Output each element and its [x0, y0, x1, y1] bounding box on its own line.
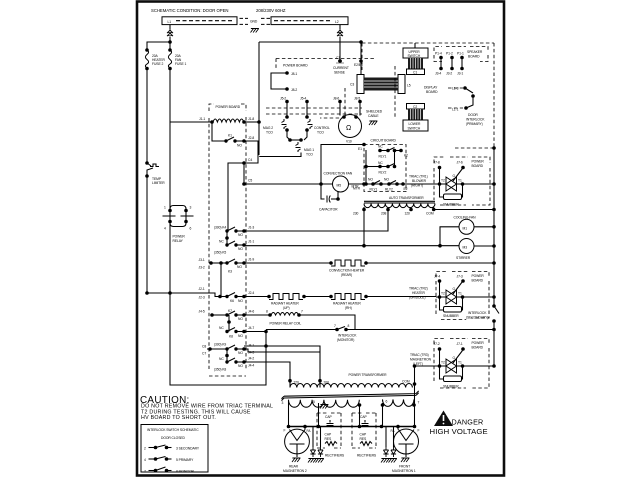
svg-text:C2: C2: [413, 105, 417, 109]
svg-text:(UP): (UP): [283, 306, 290, 310]
snubber for TR1: [440, 184, 463, 207]
node E1 on circuit board: [358, 143, 366, 151]
circuit board left wire: [365, 150, 367, 184]
svg-text:(PRIMARY): (PRIMARY): [466, 122, 483, 126]
svg-text:220: 220: [294, 380, 300, 384]
svg-text:J7-1: J7-1: [457, 342, 463, 346]
svg-text:J7-6: J7-6: [457, 161, 463, 165]
svg-text:K1: K1: [228, 134, 232, 138]
svg-text:230: 230: [353, 212, 359, 216]
wire J1-3 row to 208 tap: [244, 210, 388, 232]
relay contact K5 row J1-1: [214, 240, 254, 255]
svg-text:INTERLOCK: INTERLOCK: [466, 118, 485, 122]
svg-text:MAGNETRON 1: MAGNETRON 1: [392, 469, 416, 473]
wire C4 branch down to K4: [228, 163, 244, 231]
svg-text:RELAY: RELAY: [173, 239, 184, 243]
svg-text:K8: K8: [229, 335, 233, 339]
svg-text:CONVECTION HEATER: CONVECTION HEATER: [329, 269, 365, 273]
svg-text:4: 4: [164, 227, 166, 231]
svg-text:3 SECONDARY: 3 SECONDARY: [176, 447, 200, 451]
TR1 pins J7-8 J7-6: [434, 161, 465, 185]
power board (top) dashed box: [276, 59, 376, 69]
connector pins J5-2 J5-4 J8-6 J8-5: [280, 97, 362, 104]
svg-text:TCO: TCO: [306, 153, 313, 157]
wire J4-1 row to transformer tap 208: [244, 344, 320, 381]
svg-text:M3: M3: [463, 246, 468, 250]
svg-text:K3: K3: [228, 270, 232, 274]
svg-text:CONVECTION FAN: CONVECTION FAN: [324, 172, 353, 176]
speaker board dashed box: [434, 47, 488, 62]
svg-text:F: F: [284, 429, 286, 433]
svg-text:120: 120: [405, 212, 411, 216]
svg-text:J2-8: J2-8: [248, 136, 254, 140]
svg-text:SNUBBER: SNUBBER: [443, 314, 459, 318]
relay contact K6 row J2-4: [211, 291, 254, 303]
svg-text:NO: NO: [238, 351, 243, 355]
svg-text:POWER BOARD: POWER BOARD: [216, 105, 241, 109]
magnetron 2 (rear): [283, 425, 311, 473]
svg-text:COM: COM: [426, 212, 434, 216]
current transformer CT node: [333, 56, 349, 75]
svg-text:P1-4: P1-4: [435, 52, 442, 56]
wire L2 drop to power board CT: [338, 25, 342, 63]
svg-text:L1: L1: [168, 20, 172, 24]
svg-text:NO: NO: [238, 334, 243, 338]
svg-text:(REAR): (REAR): [341, 273, 352, 277]
svg-text:STIRRER: STIRRER: [456, 256, 471, 260]
node C8 C7 entry: [202, 345, 212, 356]
radiant heater UP element: [244, 294, 306, 311]
relay contact K8 row J4-7: [219, 326, 254, 339]
svg-text:5 PRIMARY: 5 PRIMARY: [176, 458, 194, 462]
capacitor for convection fan: [319, 184, 340, 212]
svg-text:6: 6: [386, 400, 388, 404]
chassis enclosure dashed outline: [362, 43, 494, 70]
svg-text:K2: K2: [404, 154, 408, 158]
relay contact K7 row J4-5 J4-6: [199, 309, 255, 321]
connector plug below L2: [337, 30, 343, 36]
svg-text:LOWER: LOWER: [409, 122, 422, 126]
secondary center ground: [320, 403, 328, 409]
triac TR1: [436, 169, 496, 192]
danger high voltage warning triangle: [434, 411, 453, 427]
svg-text:J1-3: J1-3: [248, 226, 254, 230]
svg-text:NO: NO: [238, 299, 243, 303]
door interlock primary switch: [448, 86, 485, 126]
svg-text:J5-4: J5-4: [300, 97, 306, 101]
magnetron filament bus: [287, 425, 417, 429]
svg-text:REAR: REAR: [289, 465, 299, 469]
right rail lower: [493, 321, 495, 366]
convection heater element row: [244, 260, 496, 277]
svg-text:J4-7: J4-7: [248, 326, 254, 330]
power board box for TR1: [434, 157, 490, 205]
svg-text:INTERLOCK: INTERLOCK: [338, 334, 357, 338]
wire J4-3 row to 208 drop: [244, 349, 320, 352]
svg-text:C1: C1: [413, 71, 417, 75]
power board (relay board) dashed enclosure: [209, 104, 246, 376]
interlock monitor switch row: [266, 324, 496, 342]
svg-text:J1-9: J1-9: [248, 258, 254, 262]
stirrer motor M3: [456, 239, 496, 260]
svg-text:NO: NO: [238, 247, 243, 251]
svg-text:SWITCH: SWITCH: [408, 54, 421, 58]
svg-text:J7-3: J7-3: [457, 275, 463, 279]
svg-text:SENSE: SENSE: [334, 71, 346, 75]
speaker board pins P1/J3: [435, 52, 464, 76]
svg-text:M5: M5: [337, 184, 342, 188]
svg-text:Ω: Ω: [346, 125, 351, 132]
svg-text:NO: NO: [237, 144, 242, 148]
svg-text:J1-1: J1-1: [248, 240, 254, 244]
svg-text:P1-2: P1-2: [446, 52, 453, 56]
svg-text:5: 5: [313, 400, 315, 404]
svg-text:BOARD: BOARD: [468, 55, 480, 59]
svg-text:SPEAKER: SPEAKER: [467, 50, 483, 54]
door interlock secondary switch on rail: [466, 304, 499, 323]
svg-text:208/230V 60HZ: 208/230V 60HZ: [256, 8, 286, 13]
svg-text:J8-6: J8-6: [333, 97, 339, 101]
svg-text:CAP: CAP: [325, 415, 332, 419]
svg-text:J3-2: J3-2: [199, 266, 205, 270]
svg-text:J3-1: J3-1: [199, 258, 205, 262]
fuse F1 (20A FAN FUSE 1): [168, 50, 186, 68]
svg-text:8 MONITOR: 8 MONITOR: [176, 470, 194, 474]
schematic outer border frame: [137, 2, 504, 476]
svg-text:T2: T2: [441, 179, 445, 183]
svg-text:COM: COM: [402, 380, 410, 384]
power transformer primary winding: [288, 379, 412, 388]
thermal cutout CONTROL TCO: [305, 102, 330, 135]
svg-text:NC: NC: [378, 145, 383, 149]
svg-text:RECTIFIERS: RECTIFIERS: [357, 454, 377, 458]
svg-text:POWER TRANSFORMER: POWER TRANSFORMER: [349, 373, 388, 377]
capacitor box 2: [352, 413, 376, 448]
svg-text:J3-2: J3-2: [446, 72, 452, 76]
triac TR3 label: [410, 353, 432, 366]
table row monitor: [144, 467, 194, 474]
line filter coil L5: [350, 75, 411, 94]
wire node C5 line to convection fan: [244, 183, 321, 185]
svg-text:T2: T2: [441, 361, 445, 365]
relay K1 coil row J1-1 to J1-8: [170, 117, 261, 124]
svg-text:BLOWER: BLOWER: [412, 179, 427, 183]
TR3 pins J7-2 J7-1: [434, 342, 465, 366]
power board box for TR2: [436, 272, 489, 320]
svg-text:POWER: POWER: [472, 160, 485, 164]
rectifier diodes right: [357, 427, 397, 463]
svg-text:LIMITER: LIMITER: [152, 181, 165, 185]
triac TR2: [436, 282, 496, 305]
svg-text:NO: NO: [238, 364, 243, 368]
connector J8-1 J8-2 jumper: [271, 71, 297, 92]
relay contact RLY2 on circuit board: [364, 151, 396, 175]
TR2 pins J7-4 J7-3: [434, 275, 465, 298]
svg-text:J1-8: J1-8: [248, 117, 254, 121]
svg-text:NC: NC: [219, 357, 224, 361]
svg-text:(SECONDARY): (SECONDARY): [466, 316, 488, 320]
triac TR1 label: [409, 175, 428, 188]
connector plug below L1: [167, 30, 173, 36]
wire K4-K5 link: [225, 231, 229, 245]
svg-text:J3-4: J3-4: [435, 72, 441, 76]
svg-text:L5: L5: [407, 84, 411, 88]
power transformer COM drop: [402, 364, 416, 426]
svg-text:CT: CT: [336, 56, 340, 60]
ground symbol at GND: [251, 29, 259, 33]
svg-text:TCO: TCO: [266, 131, 273, 135]
svg-text:NO: NO: [368, 178, 373, 182]
svg-text:NC: NC: [219, 240, 224, 244]
wire GND/L2 bus to E2 drop: [259, 40, 363, 44]
svg-text:1: 1: [164, 206, 166, 210]
svg-text:AUTO TRANSFORMER: AUTO TRANSFORMER: [389, 196, 424, 200]
convection fan feed loop to E1: [319, 145, 364, 186]
svg-text:NO: NO: [238, 233, 243, 237]
power board bottom dashed double line: [266, 108, 362, 114]
wire J2 feed row: [145, 287, 211, 300]
svg-text:L1-3: L1-3: [452, 87, 459, 91]
relay contact K8 row J4-2 J4-4: [214, 357, 254, 372]
svg-text:SWITCH: SWITCH: [408, 127, 421, 131]
svg-text:P1-1: P1-1: [457, 52, 464, 56]
svg-text:C8: C8: [202, 345, 206, 349]
radiant heater RH element: [303, 294, 436, 311]
svg-text:(RIGHT): (RIGHT): [411, 184, 423, 188]
wire J4-2 row to transformer tap 220: [244, 362, 290, 381]
snubber for TR2: [440, 297, 463, 318]
svg-text:NC: NC: [219, 326, 224, 330]
svg-text:POWER BOARD: POWER BOARD: [283, 64, 308, 68]
wire x259 vertical feed: [258, 42, 260, 155]
svg-text:MAGNETRON: MAGNETRON: [410, 358, 432, 362]
svg-text:J2-4: J2-4: [248, 291, 254, 295]
svg-text:J2-3: J2-3: [199, 296, 205, 300]
svg-text:J3-1: J3-1: [457, 72, 463, 76]
wire neutral rail x170 down and return to monitor line: [170, 122, 266, 385]
svg-text:J4-2: J4-2: [248, 357, 254, 361]
svg-text:J4-4: J4-4: [248, 364, 254, 368]
svg-text:GND: GND: [250, 20, 258, 24]
wire J4-7 row to return rail: [244, 330, 268, 334]
svg-text:CURRENT: CURRENT: [333, 66, 349, 70]
power transformer core: [282, 391, 419, 401]
cooling fan motor M1: [454, 215, 496, 234]
svg-text:CAP: CAP: [360, 415, 367, 419]
rectifier diodes left: [308, 427, 345, 463]
wire K3 link down: [220, 263, 222, 296]
svg-text:6: 6: [190, 227, 192, 231]
node E2/E3 drop: [354, 42, 363, 74]
svg-text:J4-6: J4-6: [248, 310, 254, 314]
svg-text:DANGER: DANGER: [452, 418, 484, 427]
svg-text:F: F: [418, 429, 420, 433]
thermal cutout MAG 1 TCO chain: [259, 130, 314, 157]
snubber for TR3: [440, 366, 463, 389]
svg-text:SNUBBER: SNUBBER: [443, 385, 459, 389]
svg-text:7: 7: [301, 310, 303, 314]
svg-text:INTERLOCK: INTERLOCK: [468, 311, 487, 315]
thermal cutout MAG 2 TCO: [263, 102, 289, 135]
display board bottom dashed: [455, 146, 496, 150]
capacitor box 1: [317, 413, 341, 448]
relay contact K3 row J3: [199, 258, 255, 274]
display board dashed box: [320, 66, 438, 118]
temp limiter switch: [145, 161, 165, 185]
wire K7-K8 link: [227, 315, 231, 332]
svg-text:BOARD: BOARD: [472, 279, 484, 283]
svg-text:T1: T1: [458, 292, 462, 296]
svg-text:(MONITOR): (MONITOR): [337, 338, 354, 342]
power relay (4-pin) on neutral rail: [163, 206, 194, 244]
right rail upper: [493, 43, 495, 306]
svg-text:TRIAC (TR2): TRIAC (TR2): [409, 287, 428, 291]
svg-text:RLY1: RLY1: [379, 155, 387, 159]
svg-text:3: 3: [190, 206, 192, 210]
svg-text:4: 4: [144, 458, 146, 462]
svg-text:DOOR CLOSED: DOOR CLOSED: [161, 436, 185, 440]
magnetron 1 (front): [391, 425, 420, 473]
triac TR2 label: [409, 287, 428, 300]
svg-text:DOOR: DOOR: [468, 113, 478, 117]
svg-text:8: 8: [348, 324, 350, 328]
svg-text:MAGNETRON 2: MAGNETRON 2: [283, 469, 307, 473]
svg-text:CIRCUIT BOARD: CIRCUIT BOARD: [371, 139, 397, 143]
svg-text:RLY2: RLY2: [379, 171, 387, 175]
svg-text:NC: NC: [378, 161, 383, 165]
danger high voltage text: [430, 418, 488, 436]
svg-text:J7-2: J7-2: [434, 342, 440, 346]
lower switch connector: [403, 104, 428, 132]
svg-text:J4-5: J4-5: [199, 310, 205, 314]
wire M1 branch: [438, 227, 459, 248]
power transformer secondary winding B: [383, 399, 415, 406]
svg-text:(GRIDDLE): (GRIDDLE): [409, 296, 425, 300]
wire COM node to TR3 T2: [415, 365, 437, 367]
svg-text:POWER: POWER: [472, 274, 485, 278]
svg-text:(300) K4: (300) K4: [214, 226, 226, 230]
svg-text:(300) K9: (300) K9: [214, 343, 226, 347]
svg-text:MAG 1: MAG 1: [304, 148, 314, 152]
svg-text:INTERLOCK SWITCH SCHEMATIC: INTERLOCK SWITCH SCHEMATIC: [147, 428, 199, 432]
svg-text:J7-4: J7-4: [434, 275, 440, 279]
svg-text:POWER: POWER: [173, 235, 186, 239]
table row primary: [144, 457, 194, 463]
caution body text: [141, 404, 273, 422]
svg-text:C4: C4: [248, 158, 252, 162]
secondary drop wires: [289, 400, 416, 427]
wire node C4 to node C5: [242, 163, 252, 186]
svg-text:RLY1: RLY1: [370, 188, 378, 192]
svg-text:TRIAC (TR1): TRIAC (TR1): [409, 175, 428, 179]
svg-text:TCO: TCO: [317, 131, 324, 135]
svg-text:CAP: CAP: [360, 433, 367, 437]
svg-text:E1: E1: [358, 147, 362, 151]
wire left rail down to J2 row: [146, 176, 148, 293]
svg-text:(350) K5: (350) K5: [214, 251, 226, 255]
svg-text:(RH): (RH): [345, 306, 352, 310]
svg-text:L2: L2: [335, 20, 339, 24]
svg-text:BOARD: BOARD: [426, 90, 438, 94]
relay contact K4 row J1-3: [214, 226, 254, 238]
svg-text:RADIANT HEATER: RADIANT HEATER: [333, 302, 361, 306]
svg-text:RLY2: RLY2: [385, 188, 393, 192]
svg-text:RADIANT HEATER: RADIANT HEATER: [271, 302, 299, 306]
svg-text:MTR: MTR: [353, 187, 361, 191]
svg-text:MAG 2: MAG 2: [263, 126, 273, 130]
svg-text:C7: C7: [202, 352, 206, 356]
svg-text:J2-1: J2-1: [199, 287, 205, 291]
fuse F2 (20A HEATER FUSE 2): [145, 50, 165, 68]
svg-text:RECTIFIERS: RECTIFIERS: [325, 454, 345, 458]
svg-text:RES: RES: [325, 437, 332, 441]
relay contact K1: [212, 122, 254, 148]
wire K9-K8 link: [225, 349, 229, 362]
circuit board dashed box: [364, 139, 406, 192]
svg-text:POWER: POWER: [472, 341, 485, 345]
svg-text:V10: V10: [346, 140, 352, 144]
relay contact K9 row J4-1 J4-3: [210, 343, 254, 356]
svg-text:FUSE 2: FUSE 2: [152, 62, 163, 66]
svg-text:T1: T1: [458, 179, 462, 183]
interlock switch schematic table: [141, 425, 208, 473]
svg-text:CAPACITOR: CAPACITOR: [319, 208, 338, 212]
svg-text:SNUBBER: SNUBBER: [443, 203, 459, 207]
svg-text:T1: T1: [458, 361, 462, 365]
svg-text:208: 208: [381, 212, 387, 216]
auto transformer: [353, 196, 436, 216]
svg-text:TRIAC (TR3): TRIAC (TR3): [410, 353, 429, 357]
svg-text:NO: NO: [238, 317, 243, 321]
svg-text:HEATER: HEATER: [412, 291, 425, 295]
svg-text:J1-1: J1-1: [199, 117, 205, 121]
svg-text:DISPLAY: DISPLAY: [424, 86, 438, 90]
node L2 terminal box: [271, 17, 348, 25]
table row secondary: [144, 445, 200, 451]
secondary terminal labels: [282, 400, 420, 406]
wire J1-1 row to 230 tap and M3: [244, 210, 459, 248]
svg-text:7: 7: [144, 470, 146, 474]
svg-text:K6: K6: [230, 299, 234, 303]
svg-text:BOARD: BOARD: [472, 164, 484, 168]
svg-text:J7-8: J7-8: [434, 161, 440, 165]
svg-text:BOARD: BOARD: [472, 346, 484, 350]
svg-text:2: 2: [144, 447, 146, 451]
convection fan motor M5: [321, 172, 366, 193]
svg-text:NO: NO: [384, 178, 389, 182]
svg-text:POWER RELAY COIL: POWER RELAY COIL: [270, 322, 302, 326]
svg-text:J8-1: J8-1: [291, 72, 297, 76]
svg-text:J5-2: J5-2: [280, 97, 286, 101]
svg-text:HIGH VOLTAGE: HIGH VOLTAGE: [430, 427, 488, 436]
svg-text:8: 8: [266, 310, 268, 314]
svg-text:CAP: CAP: [325, 433, 332, 437]
varistor V10: [339, 102, 362, 144]
triac TR3: [436, 351, 496, 374]
svg-text:M1: M1: [463, 226, 468, 230]
power board box for TR3: [434, 339, 489, 389]
svg-text:COOLING FAN: COOLING FAN: [454, 215, 477, 219]
svg-text:SHIELDED: SHIELDED: [366, 110, 383, 114]
svg-text:SCHEMATIC CONDITION: DOOR OPEN: SCHEMATIC CONDITION: DOOR OPEN: [151, 8, 228, 13]
svg-text:CONTROL: CONTROL: [314, 126, 330, 130]
power transformer secondary winding A: [289, 400, 360, 407]
svg-text:208: 208: [324, 380, 330, 384]
node GND: [240, 18, 271, 24]
svg-text:NO: NO: [237, 265, 242, 269]
svg-text:HV BOARD TO SHORT OUT.: HV BOARD TO SHORT OUT.: [141, 415, 216, 421]
svg-text:E2: E2: [404, 187, 408, 191]
